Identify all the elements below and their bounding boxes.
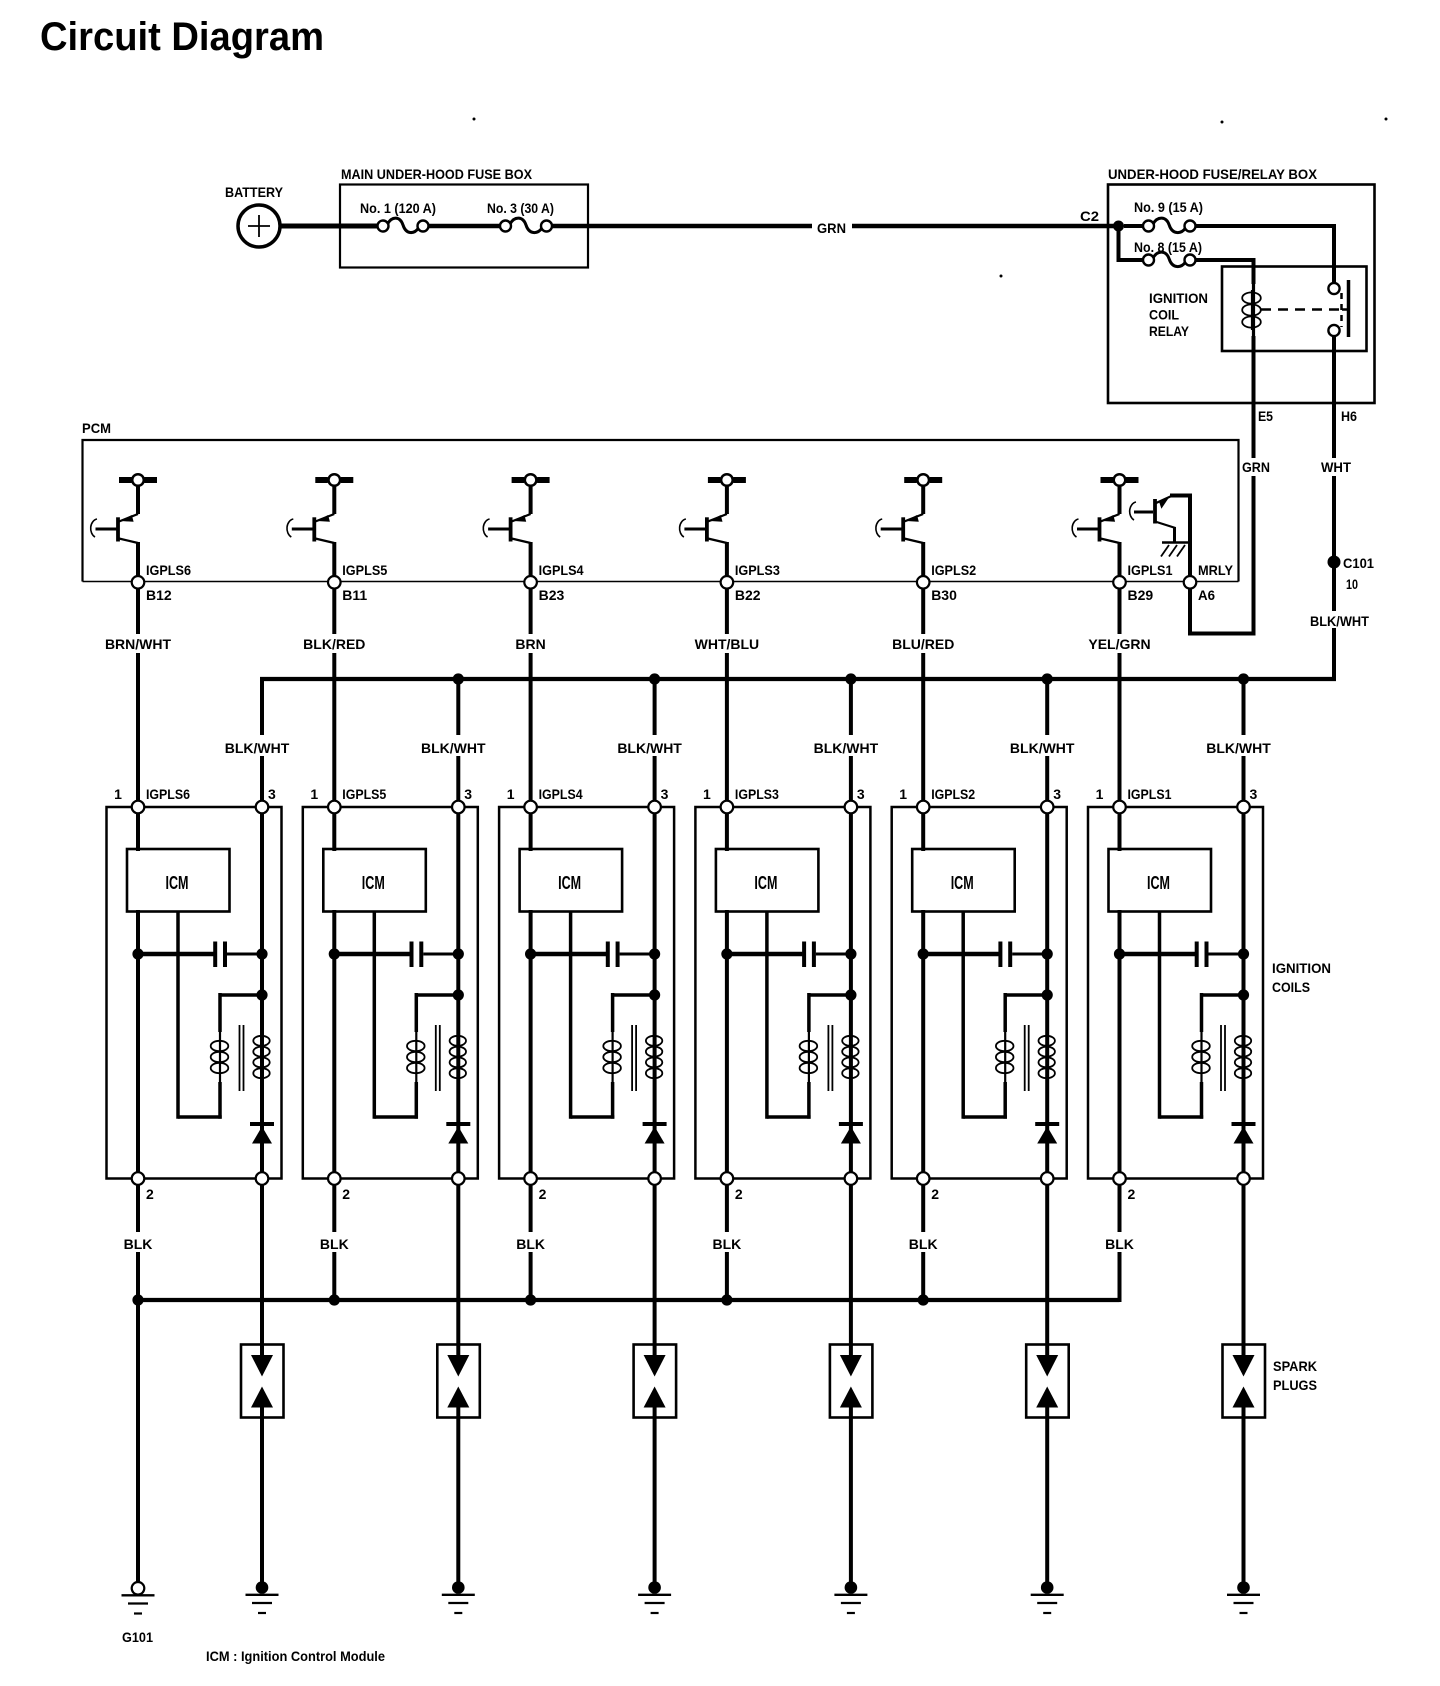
svg-text:10: 10 — [1346, 576, 1358, 592]
wire BLK from coil 2 pin 2 — [320, 1185, 349, 1302]
pin 2 of coil 5 — [917, 1172, 939, 1202]
relay coil winding — [1242, 282, 1261, 338]
svg-text:ICM : Ignition Control Module: ICM : Ignition Control Module — [206, 1648, 385, 1664]
wire pin 3 down — [653, 813, 657, 1172]
spark plug 6 — [1223, 1345, 1266, 1418]
svg-text:IGPLS3: IGPLS3 — [735, 562, 780, 578]
svg-text:BLK: BLK — [516, 1236, 545, 1252]
ICM box of coil 3 — [520, 849, 623, 912]
under-hood fuse/relay box — [1108, 166, 1375, 403]
svg-text:3: 3 — [464, 786, 472, 802]
ICM box of coil 1 — [127, 849, 230, 912]
wire pin 1 into ICM — [529, 813, 533, 851]
wire BLK/WHT bus — [260, 677, 1336, 681]
wire C2 to fuse No.8 — [1117, 226, 1144, 260]
svg-text:COIL: COIL — [1149, 307, 1179, 323]
svg-text:2: 2 — [735, 1186, 743, 1202]
pin 3 of coil 1 — [256, 786, 276, 813]
battery — [225, 184, 284, 247]
svg-text:IGPLS6: IGPLS6 — [146, 562, 191, 578]
svg-text:G101: G101 — [122, 1629, 153, 1645]
transformer T1 (ignition coil windings) — [178, 912, 270, 1119]
wire BLK/WHT drop to coil 4 pin 3 — [814, 673, 879, 800]
wire fuse No.8 to relay coil — [1196, 258, 1254, 284]
wire BLK ground bus — [136, 1298, 1120, 1300]
pin 3 of coil 2 — [452, 786, 472, 813]
diode D3 — [643, 1124, 667, 1144]
svg-text:BLK/WHT: BLK/WHT — [814, 740, 879, 756]
diode D5 — [1035, 1124, 1059, 1144]
wire pin 1 into ICM — [136, 813, 140, 851]
svg-text:C2: C2 — [1080, 208, 1099, 224]
wire BLU/RED from B30 to coil pin 1 — [892, 589, 954, 801]
svg-text:PCM: PCM — [82, 420, 111, 436]
wire spark plug 2 to ground — [456, 1418, 460, 1584]
ignition coil 1 (IGPLS6) box — [107, 807, 282, 1179]
main under-hood fuse box — [340, 166, 588, 268]
svg-text:BLK/WHT: BLK/WHT — [617, 740, 682, 756]
svg-text:C101: C101 — [1343, 555, 1374, 571]
wire BLK from coil 6 pin 2 — [1105, 1185, 1134, 1302]
wire YEL/GRN from B29 to coil pin 1 — [1088, 589, 1150, 801]
transistor Q4 (IGPLS4 driver) — [483, 474, 549, 576]
svg-text:E5: E5 — [1258, 408, 1273, 424]
title — [40, 15, 324, 59]
svg-text:BLK/WHT: BLK/WHT — [1206, 740, 1271, 756]
svg-text:B30: B30 — [931, 587, 957, 603]
wire WHT H6 to C101 — [1321, 403, 1351, 556]
svg-text:2: 2 — [1128, 1186, 1136, 1202]
svg-text:B12: B12 — [146, 587, 172, 603]
wire pin 3 down — [456, 813, 460, 1172]
pin 2 of coil 3 — [524, 1172, 546, 1202]
svg-text:BLK/RED: BLK/RED — [303, 636, 365, 652]
footnote — [206, 1648, 385, 1664]
svg-text:3: 3 — [857, 786, 865, 802]
svg-text:A6: A6 — [1198, 587, 1215, 603]
svg-text:IGPLS1: IGPLS1 — [1128, 562, 1173, 578]
pin H6 — [1341, 408, 1357, 424]
ground (spark plug 1) — [246, 1581, 279, 1613]
spark plug 4 — [830, 1345, 873, 1418]
svg-text:2: 2 — [539, 1186, 547, 1202]
svg-text:YEL/GRN: YEL/GRN — [1088, 636, 1150, 652]
transformer T3 (ignition coil windings) — [571, 912, 663, 1119]
wire fuse No.9 to relay contact — [1196, 224, 1337, 283]
relay dashed actuator line — [1261, 293, 1348, 327]
pin B12 (IGPLS6) — [132, 562, 191, 603]
wire pin 3 down — [1045, 813, 1049, 1172]
svg-text:BLU/RED: BLU/RED — [892, 636, 954, 652]
svg-text:BLK/WHT: BLK/WHT — [1010, 740, 1075, 756]
svg-text:MAIN UNDER-HOOD FUSE BOX: MAIN UNDER-HOOD FUSE BOX — [341, 166, 533, 182]
secondary output pin of coil 5 — [1041, 1172, 1054, 1185]
ground G101 — [122, 1582, 155, 1645]
label ignition coils — [1272, 960, 1331, 995]
wire pin 1 into ICM — [332, 813, 336, 851]
wire BLK/RED from B11 to coil pin 1 — [303, 589, 365, 801]
svg-text:BLK: BLK — [320, 1236, 349, 1252]
capacitor C3 — [525, 942, 660, 968]
junction on BLK bus (coil 4) — [721, 1294, 732, 1305]
svg-text:SPARK: SPARK — [1273, 1358, 1317, 1374]
wire BLK/WHT drop to coil 1 pin 3 — [225, 679, 290, 801]
capacitor C6 — [1114, 942, 1249, 968]
svg-text:IGPLS2: IGPLS2 — [931, 562, 976, 578]
relay contacts — [1328, 280, 1348, 337]
svg-text:BRN: BRN — [515, 636, 545, 652]
pin B30 (IGPLS2) — [917, 562, 976, 603]
transistor Q7 (MRLY driver) — [1130, 496, 1192, 577]
wire ICM to pin 2 — [1118, 910, 1122, 1172]
svg-text:1: 1 — [703, 786, 711, 802]
transistor Q6 (IGPLS6 driver) — [91, 474, 157, 576]
secondary output pin of coil 3 — [648, 1172, 661, 1185]
pin 1 of coil 5 — [899, 786, 975, 813]
wire spark plug 3 to ground — [653, 1418, 657, 1584]
wire ICM to pin 2 — [921, 910, 925, 1172]
svg-text:PLUGS: PLUGS — [1273, 1377, 1317, 1393]
svg-text:UNDER-HOOD FUSE/RELAY BOX: UNDER-HOOD FUSE/RELAY BOX — [1108, 166, 1318, 182]
pin B29 (IGPLS1) — [1113, 562, 1172, 603]
junction on BLK bus (coil 1) — [132, 1294, 143, 1305]
wire coil 2 secondary to spark plug — [456, 1185, 460, 1345]
svg-text:H6: H6 — [1341, 408, 1357, 424]
ignition coil 5 (IGPLS2) box — [892, 807, 1067, 1179]
label spark plugs — [1273, 1358, 1317, 1393]
wire GRN E5 to A6 — [1190, 403, 1270, 636]
svg-text:IGPLS2: IGPLS2 — [931, 786, 975, 802]
svg-text:IGPLS4: IGPLS4 — [539, 562, 584, 578]
pin E5 — [1258, 408, 1273, 424]
pin 1 of coil 3 — [507, 786, 583, 813]
transformer T4 (ignition coil windings) — [767, 912, 859, 1119]
svg-text:IGNITION: IGNITION — [1272, 960, 1331, 976]
svg-text:BLK: BLK — [909, 1236, 938, 1252]
pin 2 of coil 2 — [328, 1172, 350, 1202]
wire pin 3 down — [1242, 813, 1246, 1172]
fuse No.3 (30 A) — [487, 200, 554, 233]
svg-text:IGPLS4: IGPLS4 — [539, 786, 583, 802]
wire battery to fuse box — [280, 224, 378, 229]
svg-text:BLK/WHT: BLK/WHT — [225, 740, 290, 756]
pin 1 of coil 2 — [310, 786, 386, 813]
pin 2 of coil 1 — [132, 1172, 154, 1202]
wire BRN/WHT from B12 to coil pin 1 — [105, 589, 172, 801]
pin 3 of coil 5 — [1041, 786, 1061, 813]
wire coil 6 secondary to spark plug — [1242, 1185, 1246, 1345]
wire BLK/WHT drop to coil 6 pin 3 — [1206, 673, 1271, 800]
pin B23 (IGPLS4) — [524, 562, 583, 603]
svg-text:BATTERY: BATTERY — [225, 184, 284, 200]
junction on BLK bus (coil 5) — [918, 1294, 929, 1305]
transformer T5 (ignition coil windings) — [963, 912, 1055, 1119]
junction on BLK bus (coil 3) — [525, 1294, 536, 1305]
svg-text:ICM: ICM — [1147, 873, 1170, 893]
svg-text:GRN: GRN — [817, 220, 846, 236]
transistor Q3 (IGPLS3 driver) — [680, 474, 746, 576]
wire relay contact to H6 — [1332, 336, 1336, 403]
pin 3 of coil 4 — [845, 786, 865, 813]
diode D1 — [250, 1124, 274, 1144]
wire spark plug 5 to ground — [1045, 1418, 1049, 1584]
wire BLK from coil 3 pin 2 — [516, 1185, 545, 1302]
svg-text:BLK/WHT: BLK/WHT — [1310, 613, 1369, 629]
diode D4 — [839, 1124, 863, 1144]
svg-text:B22: B22 — [735, 587, 761, 603]
connector C101 pin 10 — [1328, 555, 1375, 592]
svg-text:WHT: WHT — [1321, 459, 1351, 475]
svg-text:ICM: ICM — [166, 873, 189, 893]
transistor Q1 (IGPLS1 driver) — [1072, 474, 1138, 576]
wire BRN from B23 to coil pin 1 — [515, 589, 545, 801]
ICM box of coil 2 — [323, 849, 426, 912]
svg-text:Circuit Diagram: Circuit Diagram — [40, 15, 324, 59]
pin B11 (IGPLS5) — [328, 562, 387, 603]
wire pin 1 into ICM — [1118, 813, 1122, 851]
wire spark plug 4 to ground — [849, 1418, 853, 1584]
spark plug 1 — [241, 1345, 284, 1418]
wire relay coil to E5 — [1252, 336, 1256, 403]
svg-text:No. 8 (15 A): No. 8 (15 A) — [1134, 239, 1202, 255]
ground (MRLY emitter chassis ground) — [1161, 543, 1190, 557]
ignition coil 6 (IGPLS1) box — [1088, 807, 1263, 1179]
ground (spark plug 5) — [1031, 1581, 1064, 1613]
pin 2 of coil 6 — [1113, 1172, 1135, 1202]
svg-text:ICM: ICM — [951, 873, 974, 893]
pin 3 of coil 3 — [648, 786, 668, 813]
svg-text:ICM: ICM — [362, 873, 385, 893]
fuse No.8 (15 A) — [1134, 239, 1202, 267]
wire BLK/WHT C101 to bus — [1310, 568, 1369, 681]
wire between fuses — [429, 224, 501, 229]
wire ICM to pin 2 — [529, 910, 533, 1172]
wire pin 3 down — [260, 813, 264, 1172]
ICM box of coil 4 — [716, 849, 819, 912]
pin 2 of coil 4 — [721, 1172, 743, 1202]
wire coil 4 secondary to spark plug — [849, 1185, 853, 1345]
wire BLK from coil 4 pin 2 — [713, 1185, 742, 1302]
svg-text:3: 3 — [661, 786, 669, 802]
spark plug 2 — [437, 1345, 480, 1418]
secondary output pin of coil 1 — [256, 1172, 269, 1185]
fuse No.1 (120 A) — [360, 200, 436, 233]
secondary output pin of coil 2 — [452, 1172, 465, 1185]
capacitor C2 — [329, 942, 464, 968]
transistor Q2 (IGPLS2 driver) — [876, 474, 942, 576]
transformer T2 (ignition coil windings) — [374, 912, 466, 1119]
svg-text:3: 3 — [268, 786, 276, 802]
wire WHT/BLU from B22 to coil pin 1 — [695, 589, 760, 801]
svg-text:B11: B11 — [342, 587, 367, 603]
svg-text:1: 1 — [114, 786, 122, 802]
svg-text:No. 3 (30 A): No. 3 (30 A) — [487, 200, 554, 216]
wire coil 1 secondary to spark plug — [260, 1185, 264, 1345]
svg-text:2: 2 — [342, 1186, 350, 1202]
spark plug 3 — [634, 1345, 677, 1418]
pin 1 of coil 4 — [703, 786, 779, 813]
svg-text:B29: B29 — [1128, 587, 1154, 603]
wire pin 3 down — [849, 813, 853, 1172]
wire BLK/WHT drop to coil 2 pin 3 — [421, 673, 486, 800]
transistor Q5 (IGPLS5 driver) — [287, 474, 353, 576]
svg-text:1: 1 — [1096, 786, 1104, 802]
node C2 — [1080, 208, 1124, 232]
diode D6 — [1232, 1124, 1256, 1144]
svg-text:1: 1 — [899, 786, 907, 802]
capacitor C5 — [918, 942, 1053, 968]
pin A6 (MRLY) — [1184, 562, 1234, 603]
svg-text:WHT/BLU: WHT/BLU — [695, 636, 760, 652]
svg-text:IGNITION: IGNITION — [1149, 290, 1208, 306]
svg-text:MRLY: MRLY — [1198, 562, 1234, 578]
svg-text:IGPLS6: IGPLS6 — [146, 786, 190, 802]
secondary output pin of coil 6 — [1237, 1172, 1250, 1185]
wire spark plug 6 to ground — [1242, 1418, 1246, 1584]
wire BLK/WHT drop to coil 3 pin 3 — [617, 673, 682, 800]
svg-text:ICM: ICM — [558, 873, 581, 893]
svg-text:BLK/WHT: BLK/WHT — [421, 740, 486, 756]
svg-text:COILS: COILS — [1272, 979, 1310, 995]
capacitor C4 — [721, 942, 856, 968]
ignition coil relay — [1149, 267, 1367, 352]
spark plug 5 — [1026, 1345, 1069, 1418]
svg-text:IGPLS1: IGPLS1 — [1128, 786, 1172, 802]
ground (spark plug 2) — [442, 1581, 475, 1613]
wire GRN to under-hood fuse/relay box — [552, 220, 1119, 236]
ICM box of coil 5 — [912, 849, 1015, 912]
transformer T6 (ignition coil windings) — [1160, 912, 1252, 1119]
pin 3 of coil 6 — [1237, 786, 1257, 813]
junction on BLK bus (coil 2) — [329, 1294, 340, 1305]
wire ICM to pin 2 — [725, 910, 729, 1172]
ground (spark plug 3) — [638, 1581, 671, 1613]
diode D2 — [446, 1124, 470, 1144]
svg-text:GRN: GRN — [1242, 459, 1270, 475]
svg-text:ICM: ICM — [754, 873, 777, 893]
ignition coil 3 (IGPLS4) box — [499, 807, 674, 1179]
svg-text:BRN/WHT: BRN/WHT — [105, 636, 172, 652]
svg-text:2: 2 — [146, 1186, 154, 1202]
ignition coil 4 (IGPLS3) box — [695, 807, 870, 1179]
pin B22 (IGPLS3) — [721, 562, 780, 603]
svg-text:BLK: BLK — [713, 1236, 742, 1252]
svg-text:3: 3 — [1053, 786, 1061, 802]
pin 1 of coil 1 — [114, 786, 190, 813]
svg-text:IGPLS5: IGPLS5 — [342, 562, 387, 578]
secondary output pin of coil 4 — [845, 1172, 858, 1185]
svg-text:No. 9 (15 A): No. 9 (15 A) — [1134, 199, 1203, 215]
fuse No.9 (15 A) — [1124, 199, 1203, 233]
wire BLK from coil 1 pin 2 — [124, 1185, 153, 1302]
svg-text:1: 1 — [507, 786, 515, 802]
PCM box — [82, 420, 1239, 582]
svg-text:IGPLS5: IGPLS5 — [342, 786, 386, 802]
svg-text:BLK: BLK — [1105, 1236, 1134, 1252]
wire pin 1 into ICM — [921, 813, 925, 851]
wire BLK from coil 5 pin 2 — [909, 1185, 938, 1302]
wire spark plug 1 to ground — [260, 1418, 264, 1584]
speck — [473, 118, 1388, 278]
ground (spark plug 6) — [1227, 1581, 1260, 1613]
svg-text:BLK: BLK — [124, 1236, 153, 1252]
svg-text:No. 1 (120 A): No. 1 (120 A) — [360, 200, 436, 216]
ground (spark plug 4) — [834, 1581, 867, 1613]
wire coil 5 secondary to spark plug — [1045, 1185, 1049, 1345]
wire pin 1 into ICM — [725, 813, 729, 851]
ignition coil 2 (IGPLS5) box — [303, 807, 478, 1179]
ICM box of coil 6 — [1109, 849, 1212, 912]
svg-text:1: 1 — [310, 786, 318, 802]
svg-text:3: 3 — [1250, 786, 1258, 802]
wire coil 3 secondary to spark plug — [653, 1185, 657, 1345]
pin 1 of coil 6 — [1096, 786, 1172, 813]
svg-text:RELAY: RELAY — [1149, 323, 1190, 339]
svg-text:IGPLS3: IGPLS3 — [735, 786, 779, 802]
wire ICM to pin 2 — [332, 910, 336, 1172]
wire to G101 ground — [136, 1300, 140, 1582]
svg-text:B23: B23 — [539, 587, 565, 603]
wire BLK/WHT drop to coil 5 pin 3 — [1010, 673, 1075, 800]
svg-text:2: 2 — [931, 1186, 939, 1202]
capacitor C1 — [132, 942, 267, 968]
wire ICM to pin 2 — [136, 910, 140, 1172]
